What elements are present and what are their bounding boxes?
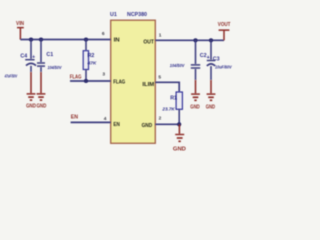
wire: pin 1 OUT to VOUT xyxy=(155,39,224,41)
node junction C1/rail xyxy=(39,38,43,42)
wire: C2 to ground xyxy=(195,69,197,80)
svg-text:10uF/60V: 10uF/60V xyxy=(215,64,232,70)
wire: rail down to R2 xyxy=(85,40,87,51)
svg-text:FLAG: FLAG xyxy=(113,79,125,85)
svg-text:C1: C1 xyxy=(46,52,53,58)
svg-text:104/50V: 104/50V xyxy=(170,63,185,69)
wire: C3 to ground xyxy=(210,66,212,80)
svg-text:GND: GND xyxy=(173,147,186,153)
svg-text:23.7K: 23.7K xyxy=(161,107,175,113)
svg-text:R1: R1 xyxy=(170,96,177,102)
wire: R2 to FLAG net xyxy=(85,70,87,82)
svg-text:C4: C4 xyxy=(20,54,27,60)
svg-text:47uF/50V: 47uF/50V xyxy=(4,73,18,79)
wire: EN to pin 4 xyxy=(71,121,111,123)
svg-text:104/50V: 104/50V xyxy=(48,65,63,71)
svg-text:5: 5 xyxy=(158,75,161,81)
svg-text:ILIM: ILIM xyxy=(142,82,154,88)
op-amp U1 body (NCP380 load switch) xyxy=(111,20,156,143)
svg-text:47K: 47K xyxy=(87,61,97,67)
node junction R2/FLAG xyxy=(84,79,88,83)
svg-text:R2: R2 xyxy=(88,53,95,59)
node junction C4/rail xyxy=(29,38,33,42)
node junction C3/out xyxy=(209,38,213,42)
svg-text:1: 1 xyxy=(159,32,162,38)
svg-text:GND: GND xyxy=(190,104,200,110)
svg-text:C2: C2 xyxy=(200,53,207,59)
svg-text:C3: C3 xyxy=(213,56,220,62)
node junction R2/rail xyxy=(84,38,88,42)
ground (C2) xyxy=(191,94,200,100)
svg-text:6: 6 xyxy=(102,31,105,37)
node junction C2/out xyxy=(194,38,198,42)
svg-text:EN: EN xyxy=(113,122,119,128)
svg-text:4: 4 xyxy=(104,116,107,122)
svg-text:NCP380: NCP380 xyxy=(127,12,147,18)
svg-text:EN: EN xyxy=(71,114,78,120)
svg-text:IN: IN xyxy=(114,38,120,44)
wire: C4 to ground xyxy=(30,66,32,72)
wire: VIN rail to pin 6 xyxy=(20,39,110,41)
svg-text:FLAG: FLAG xyxy=(70,74,82,80)
wire: pin 2 GND xyxy=(155,123,179,125)
wire: out rail down to C2 xyxy=(195,40,197,64)
resistor R1 xyxy=(176,92,182,109)
svg-text:VOUT: VOUT xyxy=(218,22,231,28)
wire: rail down to C4 xyxy=(30,40,32,60)
wire: FLAG to pin 3 xyxy=(70,80,111,82)
ground (C1) xyxy=(37,94,46,100)
svg-text:GND: GND xyxy=(37,103,47,109)
wire: rail down to C1 xyxy=(40,40,42,63)
ground (R1) xyxy=(175,135,184,142)
svg-text:U1: U1 xyxy=(110,12,117,18)
svg-text:2: 2 xyxy=(159,115,162,121)
resistor R2 xyxy=(83,51,88,70)
wire: R1 to GND pin rail xyxy=(178,109,180,124)
svg-text:VIN: VIN xyxy=(16,21,24,27)
node junction R1/GND pin xyxy=(177,122,181,126)
wire: C1 to ground xyxy=(40,67,42,72)
wire: out rail down to C3 xyxy=(210,40,212,60)
wire: junction to ground symbol xyxy=(178,124,180,134)
ground (C4) xyxy=(27,94,36,100)
wire: pin 5 ILIM to R1 xyxy=(155,82,179,92)
svg-text:GND: GND xyxy=(142,123,153,129)
svg-text:OUT: OUT xyxy=(143,39,154,45)
svg-text:GND: GND xyxy=(206,104,216,110)
ground (C3) xyxy=(207,94,216,100)
svg-text:GND: GND xyxy=(26,103,36,109)
svg-text:3: 3 xyxy=(102,72,105,78)
